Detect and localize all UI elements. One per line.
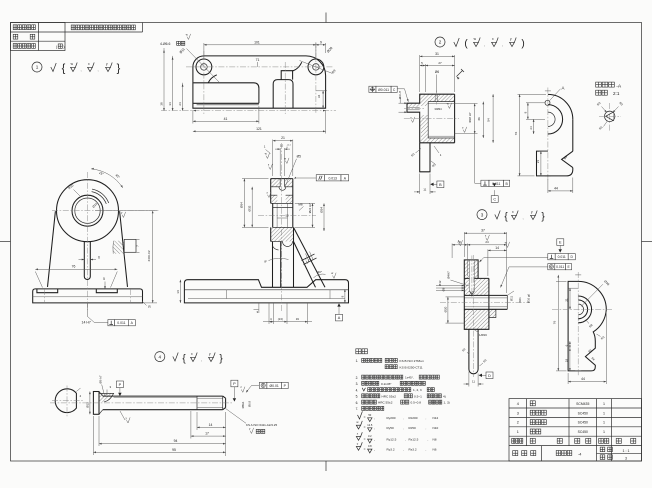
part2 leader R3 foot: [416, 149, 422, 154]
svg-text:Ø34: Ø34: [319, 207, 323, 213]
svg-text:-A: -A: [616, 84, 622, 90]
section dimension dia24H7: [295, 202, 315, 204]
svg-text:=: =: [364, 447, 366, 451]
section flange hatch left: [271, 179, 281, 187]
svg-text:Rz3.2: Rz3.2: [409, 447, 417, 451]
svg-text:13: 13: [176, 290, 180, 294]
plan view outer outline: [193, 56, 326, 108]
dimension 76 front base: [35, 272, 42, 288]
svg-text:44: 44: [581, 377, 585, 381]
svg-text:Ry12.5: Ry12.5: [387, 437, 397, 441]
svg-text:4.: 4.: [356, 388, 359, 392]
plan view bottom axis line: [161, 110, 336, 112]
section base dim 8 right: [344, 289, 346, 303]
note 4 base check: [173, 353, 178, 362]
gwaje-myeong label: [513, 451, 518, 456]
part3 side dim 6: [569, 341, 571, 348]
front view stem: [84, 241, 90, 280]
svg-text:24: 24: [529, 126, 533, 130]
part3 side centrelines: [577, 272, 579, 376]
svg-text:D: D: [488, 374, 491, 378]
svg-text:SCM435: SCM435: [576, 402, 589, 406]
svg-text:76: 76: [72, 264, 76, 268]
svg-text:A: A: [338, 316, 341, 320]
plan view centre column: [273, 80, 293, 109]
front view key box: [124, 239, 136, 252]
svg-text:37: 37: [481, 229, 485, 233]
front view base outline: [33, 289, 143, 303]
svg-text:w: w: [447, 102, 449, 105]
front view angular dimension arc: [91, 169, 123, 188]
note 1 y symbol: [106, 67, 111, 71]
part3 side dim 76: [556, 280, 567, 282]
svg-text:N8: N8: [433, 437, 437, 441]
part3 dim dia20: [446, 296, 465, 298]
part3 flange outline: [464, 278, 489, 295]
svg-text:): ): [63, 45, 64, 49]
front view surface mark on circle: [122, 212, 126, 218]
svg-text:KS A ISO 6411-A2/4.25: KS A ISO 6411-A2/4.25: [246, 423, 277, 427]
svg-text:24: 24: [178, 102, 182, 106]
part2 dimension 5 and 27: [424, 64, 426, 92]
part2 datum C flag: [493, 183, 496, 186]
svg-text:4-Ø6.6: 4-Ø6.6: [160, 42, 170, 46]
part2 dimension 54: [492, 94, 494, 143]
part name bonche: [530, 429, 541, 434]
shaft dim 94: [98, 416, 100, 446]
part3 upper column outline: [464, 260, 478, 279]
svg-text:Ø11: Ø11: [510, 296, 514, 302]
svg-text:12.5: 12.5: [367, 423, 373, 427]
section dimension dia54: [242, 178, 269, 180]
detail A circle: [605, 111, 615, 121]
svg-text:14 H7: 14 H7: [82, 321, 91, 325]
svg-text:,: ,: [201, 357, 202, 362]
center mark left: [0, 241, 11, 243]
part3 dim 11: [468, 372, 470, 387]
svg-text:14: 14: [495, 246, 499, 250]
part2 small hole top band: [434, 94, 436, 101]
svg-text:94: 94: [174, 439, 178, 443]
leader 4-holes: [187, 49, 220, 83]
note 2 x symbol: [492, 42, 497, 46]
note 3 balloon: [477, 210, 487, 220]
svg-text:N12: N12: [433, 416, 439, 420]
svg-text:9: 9: [320, 40, 322, 44]
svg-text:HRC 55±2: HRC 55±2: [382, 394, 397, 398]
section web verticals: [272, 242, 274, 288]
svg-text:10: 10: [280, 144, 284, 148]
svg-text:Ø20: Ø20: [443, 306, 447, 312]
front view horizontal centreline: [52, 210, 160, 212]
plan view step below left hole: [208, 75, 217, 83]
svg-text:w: w: [331, 272, 333, 275]
dimension 5 base slot: [104, 282, 106, 289]
svg-text:,: ,: [80, 67, 81, 72]
svg-text:19: 19: [296, 317, 300, 321]
notes title juseo: [356, 349, 368, 354]
svg-text:Rz12.5: Rz12.5: [409, 437, 419, 441]
svg-text:,: ,: [374, 437, 375, 441]
part3 spigot step: [489, 309, 496, 317]
svg-text:,: ,: [374, 416, 375, 420]
svg-text:11: 11: [423, 187, 426, 191]
dimension 6 stem: [79, 259, 85, 261]
svg-text:121: 121: [256, 127, 262, 131]
svg-text:,: ,: [374, 447, 375, 451]
note 3 base check: [495, 211, 500, 220]
note 2 w symbol: [474, 42, 479, 46]
svg-text:36: 36: [477, 117, 481, 121]
section base slot verticals: [225, 290, 227, 299]
part3 flange hatch: [464, 278, 489, 295]
svg-text:1x45°,: 1x45°,: [405, 376, 414, 380]
svg-text:Ry3.2: Ry3.2: [387, 447, 395, 451]
svg-text:Ø6 h7: Ø6 h7: [99, 375, 103, 383]
part name gojeongjo: [530, 410, 546, 415]
svg-text:0.8: 0.8: [368, 444, 372, 448]
svg-text:Ø21: Ø21: [518, 297, 522, 303]
svg-text:1: 1: [517, 430, 519, 434]
svg-text:101: 101: [254, 40, 260, 44]
svg-text:1.: 1.: [356, 359, 359, 363]
part2 side dim 44: [547, 179, 549, 193]
svg-text:95: 95: [172, 448, 176, 452]
section second hatch left: [271, 195, 278, 203]
angle method label and value: [600, 455, 605, 460]
svg-text:Ø8: Ø8: [441, 287, 445, 291]
part2 side centreline: [547, 88, 549, 180]
part3 lower block hatch: [464, 309, 489, 329]
part2 side dim 8: [526, 102, 545, 104]
shaft datum P left: [116, 381, 123, 388]
leader right hole dia20: [300, 61, 333, 74]
front view body right slant: [120, 211, 128, 287]
svg-text:P: P: [119, 383, 122, 387]
svg-text:,: ,: [403, 416, 404, 420]
svg-text:21: 21: [536, 160, 540, 164]
plan view pocket outline: [193, 83, 259, 104]
plan view bottom step line: [197, 104, 259, 106]
header pum-myeong: [530, 438, 535, 443]
shaft flat edge line: [114, 397, 197, 399]
section base bottom dims 4 13 19: [268, 303, 270, 324]
detail A leader R left: [602, 107, 607, 113]
part name chuk: [530, 401, 535, 406]
svg-text:0.2x45°: 0.2x45°: [381, 382, 392, 386]
part3 left leaders: [436, 285, 464, 287]
plan view hole centreline horizontal: [186, 66, 334, 68]
svg-text:Ø38 H7: Ø38 H7: [468, 112, 472, 122]
svg-text:41: 41: [224, 117, 228, 121]
svg-text:,: ,: [426, 447, 427, 451]
svg-text:Ø24 H7: Ø24 H7: [308, 203, 312, 213]
dimension 41 bottom: [192, 110, 194, 124]
svg-text:-4: -4: [578, 453, 581, 457]
part2 side hole A: [545, 100, 550, 105]
part2 side outline right: [537, 119, 573, 176]
svg-text:SC450: SC450: [578, 411, 588, 415]
detail A leader R right: [613, 107, 619, 113]
svg-text:7.: 7.: [356, 407, 359, 411]
title gisa exam problem text: [71, 25, 135, 30]
svg-text:31: 31: [435, 52, 439, 56]
front view base right slot: [96, 289, 117, 293]
part2 foot: [420, 143, 430, 172]
svg-text:5: 5: [103, 277, 105, 281]
section dimension dia34: [323, 203, 325, 231]
svg-text:1: 1: [36, 65, 39, 70]
shaft dim 17: [190, 411, 192, 439]
svg-text:0.5~1: 0.5~1: [414, 394, 422, 398]
shaft collar chamfer: [99, 392, 103, 397]
svg-text:P: P: [233, 382, 236, 386]
header pum-beon: [512, 438, 523, 443]
note 4 balloon: [155, 352, 165, 362]
svg-text:Ry200: Ry200: [387, 416, 396, 420]
front view boss outer circle: [57, 180, 119, 242]
part2 left wall hatch upper: [420, 94, 429, 106]
note 3 x symbol: [512, 215, 517, 219]
section base side view outline: [184, 280, 348, 303]
plan view left counterbored hole: [196, 59, 212, 75]
part2 dimension dia38H7: [455, 103, 478, 105]
shaft thread section: [197, 395, 223, 397]
dimension 34 left: [172, 56, 174, 111]
section roughness marks lower: [268, 192, 272, 198]
svg-text:54: 54: [487, 118, 491, 122]
svg-text:,: ,: [97, 67, 98, 72]
dimension 9: [316, 44, 326, 46]
svg-text:,: ,: [403, 447, 404, 451]
dimension 24 left: [182, 83, 184, 111]
shaft datum P right: [231, 380, 238, 387]
shaft dim 14: [196, 412, 198, 430]
shaft dia12 dim: [89, 392, 91, 415]
roughness legend row 3: [356, 437, 360, 441]
part3 dim (9) 24: [451, 244, 453, 259]
header jae-jil: [575, 438, 580, 443]
project name clamp-4: [556, 451, 572, 456]
svg-text:18: 18: [564, 359, 568, 363]
section groove semicircle: [279, 187, 286, 191]
svg-text:=: =: [364, 416, 366, 420]
part3 side dim 44: [567, 373, 569, 384]
svg-text:N10: N10: [433, 426, 439, 430]
dimension 34 right: [316, 90, 327, 92]
center mark right: [642, 241, 652, 243]
shaft partial section hatch: [99, 393, 114, 402]
part3 stem: [469, 329, 478, 374]
section drill tip notch: [283, 242, 293, 247]
detail A centrelines: [609, 103, 611, 131]
svg-text:3/Ø34: 3/Ø34: [434, 107, 442, 111]
label seong-myeong: [13, 34, 18, 39]
part3 side dim 21: [569, 287, 579, 289]
section roughness marks top: [266, 153, 270, 159]
svg-text:w: w: [505, 241, 507, 244]
part3 drill tip in hole: [470, 291, 475, 295]
shaft centre hole leader: [226, 409, 246, 424]
svg-text:1/Ø16: 1/Ø16: [479, 333, 487, 337]
part3 roughness top: [459, 240, 463, 246]
svg-text:B: B: [439, 183, 442, 187]
section lower hatch block: [271, 227, 294, 241]
svg-text:A: A: [562, 86, 565, 91]
svg-text:=: =: [364, 437, 366, 441]
svg-text:1: 1: [603, 430, 605, 434]
part2 dimension 11 foot: [419, 174, 421, 195]
section base t-slot line: [188, 298, 345, 300]
part2 dimension 31: [419, 55, 421, 92]
shaft body: [103, 395, 197, 397]
svg-text:Ø0.01: Ø0.01: [270, 384, 279, 388]
part3 bore lines: [464, 294, 507, 296]
svg-text:,: ,: [403, 426, 404, 430]
svg-text:21: 21: [281, 136, 285, 140]
svg-text:0.011: 0.011: [556, 265, 564, 269]
plan view step below right hole: [293, 62, 302, 70]
section centreline vertical: [281, 143, 283, 312]
note 1 x symbol: [88, 67, 93, 71]
svg-text:Ø6: Ø6: [435, 70, 439, 74]
part3 datum D flag: [479, 374, 482, 377]
svg-text:5.: 5.: [356, 395, 359, 399]
svg-text:14: 14: [209, 423, 213, 427]
part2 centreline: [404, 118, 459, 120]
svg-text:Rz50: Rz50: [409, 426, 417, 430]
dimension 44 front: [95, 210, 157, 212]
svg-text:,: ,: [426, 416, 427, 420]
roughness legend row 2: [356, 425, 360, 429]
center mark bottom: [325, 461, 327, 471]
front view base inner line: [33, 296, 143, 298]
svg-text:N6: N6: [433, 447, 437, 451]
part2 dimension 36: [482, 102, 484, 138]
part3 side dia38 leader: [581, 284, 603, 306]
svg-text:(13): (13): [278, 317, 283, 321]
svg-text:0.5~0.8: 0.5~0.8: [411, 401, 422, 405]
section web fillet: [273, 246, 279, 250]
center mark top: [325, 13, 327, 23]
svg-text:34: 34: [168, 102, 172, 106]
svg-text:SC450: SC450: [578, 421, 588, 425]
part2 perpendicularity frame: [481, 180, 489, 186]
note line 1b: [385, 365, 397, 369]
section rib diagonal upper: [294, 227, 326, 287]
svg-text:12: 12: [285, 213, 289, 217]
roughness legend row 1: [358, 411, 363, 419]
svg-text:Ø6.8: Ø6.8: [247, 401, 251, 408]
svg-text:Ø5: Ø5: [297, 155, 301, 159]
roughness legend row 4: [356, 447, 360, 451]
svg-text:3.2: 3.2: [368, 434, 372, 438]
svg-text:Ø4 H7: Ø4 H7: [398, 91, 402, 100]
svg-text:2:1: 2:1: [613, 91, 620, 96]
front view boss arc band: [92, 192, 107, 204]
shaft roughness y below: [127, 417, 131, 423]
svg-text:2: 2: [439, 40, 442, 45]
svg-text:{: {: [62, 63, 66, 75]
front view leader R10: [74, 190, 81, 197]
svg-text:2.: 2.: [356, 376, 359, 380]
svg-text:,: ,: [502, 42, 503, 47]
svg-text:76: 76: [553, 321, 557, 325]
shaft roughness z: [241, 387, 245, 393]
svg-text:,: ,: [405, 437, 406, 441]
plan view right counterbored hole: [308, 59, 324, 75]
part2 side hole leader A: [549, 89, 560, 101]
part2 position frame: [369, 86, 376, 92]
part2 left wall hatch lower: [420, 115, 429, 138]
svg-text:1, 3): 1, 3): [444, 401, 450, 405]
part name idongjo: [530, 420, 546, 425]
svg-text:,: ,: [374, 426, 375, 430]
svg-text:76: 76: [514, 132, 518, 136]
svg-text:1: 1: [603, 421, 605, 425]
detail A leader R bottom: [604, 121, 608, 127]
svg-text:KS B 0250-CT11: KS B 0250-CT11: [400, 365, 423, 369]
section top flange outline: [271, 178, 293, 180]
section dimension 21: [272, 140, 274, 177]
svg-text:Ø4H7: Ø4H7: [446, 271, 450, 279]
svg-text:4: 4: [159, 354, 162, 359]
svg-text:,: ,: [484, 42, 485, 47]
svg-text:Ø0.011: Ø0.011: [378, 88, 389, 92]
section rib diagonal lower: [294, 242, 316, 288]
svg-text:1 : 1: 1 : 1: [623, 449, 630, 453]
detail A scale: [596, 90, 608, 95]
leader R3 base corner: [142, 301, 147, 306]
note 1 base check symbol: [51, 63, 56, 72]
shaft dim 95: [92, 416, 94, 455]
note 4 x symbol: [191, 357, 196, 361]
section rib cross marks: [302, 254, 317, 265]
svg-text:3: 3: [625, 457, 627, 461]
svg-text:Ø16 g6: Ø16 g6: [527, 293, 531, 303]
svg-text:1: 1: [603, 411, 605, 415]
part2 side arcs: [548, 94, 573, 119]
svg-text:): ): [521, 39, 524, 50]
section bore centreline: [258, 214, 316, 216]
scale label and value: [600, 447, 605, 452]
svg-text:27: 27: [438, 61, 442, 65]
svg-text:M8: M8: [298, 202, 302, 206]
shaft end view centrelines: [66, 386, 68, 417]
section base dim 13 left: [179, 280, 181, 303]
svg-text:w: w: [284, 157, 286, 160]
svg-text:0.011: 0.011: [117, 321, 125, 325]
svg-text:w: w: [186, 33, 188, 36]
plan view left hole centreline vertical: [203, 51, 205, 114]
svg-text:Ø12: Ø12: [438, 280, 442, 286]
shaft concentricity frame: [259, 382, 267, 388]
svg-text:SC450: SC450: [578, 430, 588, 434]
part2 side dim 24: [533, 119, 535, 134]
part2 datum B flag: [430, 183, 433, 186]
part3 centreline vertical: [473, 255, 475, 377]
svg-text:3.: 3.: [356, 382, 359, 386]
note 4 y symbol: [209, 357, 214, 361]
svg-text:=: =: [364, 426, 366, 430]
title block row lines: [509, 407, 642, 409]
detail A title: [596, 82, 615, 87]
svg-text:Ø12: Ø12: [85, 402, 89, 408]
svg-text:6.: 6.: [356, 401, 359, 405]
part2 side dim 76: [518, 93, 547, 95]
svg-text:11: 11: [472, 380, 475, 384]
note 2 y symbol: [510, 42, 515, 46]
